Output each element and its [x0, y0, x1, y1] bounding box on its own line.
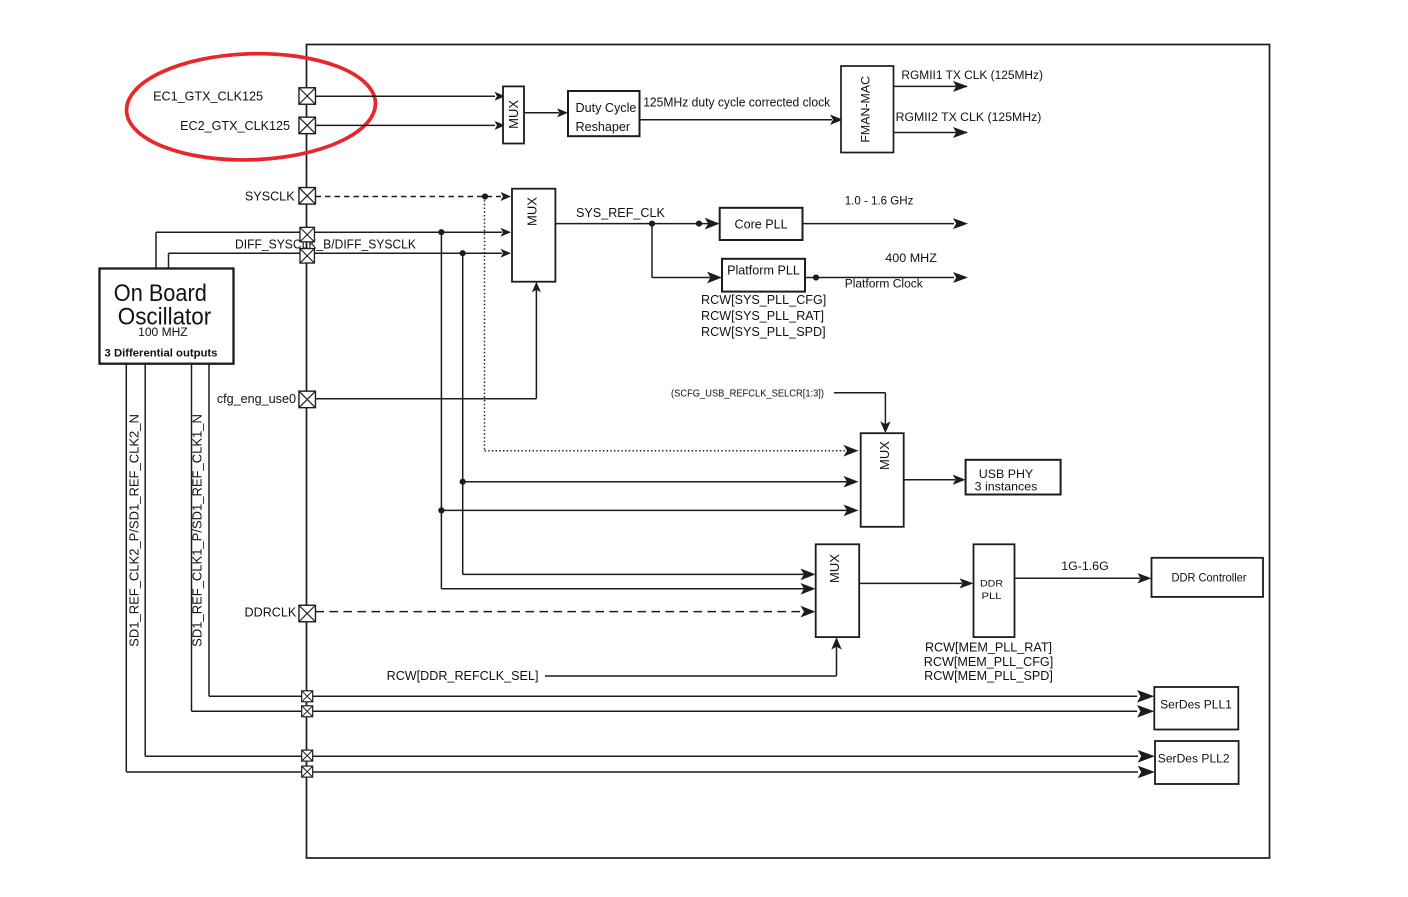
block DDR PLL: [974, 544, 1015, 637]
svg-text:SerDes PLL1: SerDes PLL1: [1160, 697, 1232, 711]
svg-text:EC2_GTX_CLK125: EC2_GTX_CLK125: [180, 119, 290, 133]
wire Platform PLL output 400 MHZ: [805, 277, 954, 279]
pin SD1_REF_CLK1_N: [302, 706, 313, 717]
arrow into Core PLL: [705, 218, 720, 230]
wire USB MUX output to USB PHY: [904, 479, 955, 481]
wire Core PLL output 1.0-1.6 GHz: [803, 223, 955, 225]
svg-text:Core PLL: Core PLL: [734, 217, 787, 231]
wire 125MHz corrected clock to FMAN-MAC: [640, 119, 833, 121]
svg-text:SerDes PLL2: SerDes PLL2: [1158, 752, 1230, 766]
block On Board Oscillator: [100, 269, 234, 364]
pin SD1_REF_CLK2_P: [302, 750, 313, 761]
junction SYSCLK dotted branch: [482, 193, 488, 199]
svg-text:3 Differential outputs: 3 Differential outputs: [105, 348, 218, 360]
block DDR Controller: [1152, 558, 1264, 597]
wire dotted SYSCLK branch to USB MUX U3: [484, 197, 486, 451]
pin SYSCLK: [299, 188, 316, 205]
wire MUX U1 output to Duty Cycle Reshaper: [524, 112, 559, 114]
wire DIFF branch B into DDR MUX U4: [463, 573, 806, 575]
svg-text:MUX: MUX: [827, 554, 842, 583]
wire DIFF branch A to USB MUX U3: [438, 507, 444, 513]
wire SD1_REF_CLK2_N to SerDes PLL2: [125, 364, 127, 772]
mux U2 (system clock select): [512, 189, 555, 282]
wire DDR PLL output 1G-1.6G to DDR Controller: [1014, 577, 1140, 579]
svg-text:DDRCLK: DDRCLK: [245, 606, 297, 620]
junction on Platform PLL output: [813, 274, 819, 280]
svg-text:FMAN-MAC: FMAN-MAC: [859, 76, 873, 143]
svg-text:DDR: DDR: [980, 579, 1003, 590]
junction DIFF_SYSCLK lower branch: [460, 250, 466, 256]
wire DIFF branch A vertical: [440, 232, 442, 589]
svg-text:400 MHZ: 400 MHZ: [885, 251, 937, 265]
wire DIFF branch B vertical: [462, 253, 464, 574]
svg-text:MUX: MUX: [877, 441, 892, 470]
wire cfg_eng_use0 select into MUX U2: [316, 398, 537, 400]
block Core PLL: [720, 208, 803, 240]
pin DIFF_SYSCLK_B: [300, 227, 315, 242]
pin DIFF_SYSCLK: [300, 249, 315, 263]
svg-text:RCW[MEM_PLL_SPD]: RCW[MEM_PLL_SPD]: [924, 669, 1053, 683]
svg-text:MUX: MUX: [525, 197, 540, 226]
pin EC2_GTX_CLK125: [299, 117, 316, 133]
svg-text:100 MHZ: 100 MHZ: [138, 327, 188, 339]
svg-text:PLL: PLL: [982, 591, 1003, 602]
wire DIFF_SYSCLK upper from oscillator: [155, 232, 157, 268]
svg-text:SYSCLK: SYSCLK: [245, 190, 295, 204]
wire DDR MUX output to DDR PLL: [859, 582, 962, 584]
svg-text:1.0 - 1.6 GHz: 1.0 - 1.6 GHz: [845, 194, 914, 208]
svg-text:DDR Controller: DDR Controller: [1172, 571, 1247, 585]
wire EC2_GTX_CLK125 to MUX U1: [316, 124, 496, 126]
block Duty Cycle Reshaper: [568, 91, 640, 136]
wire DIFF_SYSCLK lower from oscillator: [168, 253, 170, 268]
block SerDes PLL2: [1155, 741, 1239, 784]
wire SYSCLK dashed to MUX U2: [316, 196, 502, 198]
svg-text:RCW[DDR_REFCLK_SEL]: RCW[DDR_REFCLK_SEL]: [387, 669, 539, 683]
wire RGMII1 TX CLK output: [894, 85, 968, 87]
svg-text:Reshaper: Reshaper: [576, 120, 631, 134]
pin EC1_GTX_CLK125: [299, 88, 316, 105]
wire SYS_REF_CLK from MUX U2: [555, 223, 710, 225]
wire DIFF branch B to USB MUX U3: [460, 479, 466, 485]
svg-text:3 instances: 3 instances: [975, 480, 1038, 494]
svg-text:RCW[MEM_PLL_RAT]: RCW[MEM_PLL_RAT]: [925, 641, 1052, 655]
pin SD1_REF_CLK1_P: [302, 691, 313, 702]
mux U1 (EC clock select): [503, 86, 524, 143]
wire EC1_GTX_CLK125 to MUX U1: [316, 95, 496, 97]
mux U4 (DDR refclk select): [816, 544, 860, 637]
svg-text:MUX: MUX: [506, 100, 521, 129]
svg-text:Duty Cycle: Duty Cycle: [576, 101, 637, 115]
wire DIFF branch A into DDR MUX U4: [441, 588, 806, 590]
junction SYS_REF_CLK to Platform PLL: [649, 221, 655, 227]
svg-text:125MHz duty cycle corrected cl: 125MHz duty cycle corrected clock: [643, 96, 831, 110]
red highlight ellipse annotation: [125, 50, 377, 164]
svg-text:Platform PLL: Platform PLL: [727, 264, 800, 278]
wire SD1_REF_CLK1_P to SerDes PLL1: [208, 364, 210, 697]
wire SD1_REF_CLK2_P to SerDes PLL2: [144, 364, 146, 757]
svg-text:RCW[SYS_PLL_RAT]: RCW[SYS_PLL_RAT]: [701, 309, 824, 323]
svg-text:RCW[SYS_PLL_SPD]: RCW[SYS_PLL_SPD]: [701, 325, 826, 339]
wire SD1_REF_CLK1_N to SerDes PLL1: [191, 364, 193, 712]
svg-text:EC1_GTX_CLK125: EC1_GTX_CLK125: [153, 90, 263, 104]
svg-text:DIFF_SYSCLK_B/DIFF_SYSCLK: DIFF_SYSCLK_B/DIFF_SYSCLK: [235, 237, 417, 251]
svg-text:RGMII1 TX CLK (125MHz): RGMII1 TX CLK (125MHz): [901, 68, 1043, 82]
wire USB refclk select into MUX U3: [834, 392, 885, 394]
block FMAN-MAC: [841, 66, 894, 153]
svg-text:RGMII2 TX CLK (125MHz): RGMII2 TX CLK (125MHz): [896, 110, 1042, 124]
pin cfg_eng_use0: [299, 391, 316, 408]
block USB PHY 3 instances: [966, 460, 1061, 495]
svg-text:RCW[MEM_PLL_CFG]: RCW[MEM_PLL_CFG]: [924, 655, 1053, 669]
wire RGMII2 TX CLK output: [894, 132, 968, 134]
svg-text:(SCFG_USB_REFCLK_SELCR[1:3]): (SCFG_USB_REFCLK_SELCR[1:3]): [671, 388, 824, 399]
outer SoC boundary box: [307, 45, 1270, 859]
svg-text:SD1_REF_CLK2_P/SD1_REF_CLK2_N: SD1_REF_CLK2_P/SD1_REF_CLK2_N: [127, 414, 142, 647]
svg-text:SD1_REF_CLK1_P/SD1_REF_CLK1_N: SD1_REF_CLK1_P/SD1_REF_CLK1_N: [190, 414, 205, 647]
block SerDes PLL1: [1154, 687, 1238, 730]
wire DDRCLK dashed into DDR MUX U4: [316, 611, 804, 613]
svg-text:RCW[SYS_PLL_CFG]: RCW[SYS_PLL_CFG]: [701, 293, 826, 307]
svg-text:Platform Clock: Platform Clock: [845, 277, 924, 291]
pin DDRCLK: [299, 605, 316, 622]
wire branch into Platform PLL: [651, 224, 653, 278]
svg-text:SYS_REF_CLK: SYS_REF_CLK: [576, 206, 665, 220]
wire RCW[DDR_REFCLK_SEL] select into MUX U4: [545, 675, 837, 677]
pin SD1_REF_CLK2_N: [302, 766, 313, 777]
junction DIFF_SYSCLK upper branch: [438, 229, 444, 235]
svg-text:1G-1.6G: 1G-1.6G: [1061, 559, 1109, 573]
mux U3 (USB refclk select): [861, 433, 904, 527]
svg-text:cfg_eng_use0: cfg_eng_use0: [217, 392, 296, 406]
junction before Core PLL: [696, 221, 702, 227]
block Platform PLL: [722, 259, 805, 292]
